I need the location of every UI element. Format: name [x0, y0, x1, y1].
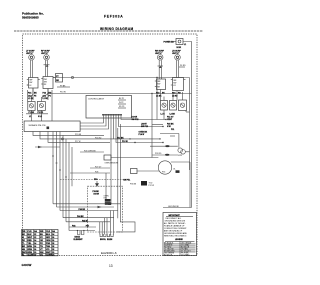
- svg-text:SW P13: SW P13: [141, 126, 148, 128]
- surface unit LF (receptacle circle): [29, 55, 35, 61]
- right feed vertical x117.8: [117, 128, 119, 218]
- svg-text:P50: P50: [94, 179, 97, 181]
- right feed vertical x120.3 with corner: [117, 124, 136, 232]
- svg-text:P16 RD: P16 RD: [95, 138, 102, 140]
- wire color code table: [22, 230, 59, 257]
- arrow on oven box edge: [95, 181, 99, 187]
- bake element (loops below wire): [69, 230, 95, 235]
- wire RR unit down: [159, 60, 161, 79]
- svg-text:P6: P6: [49, 95, 51, 97]
- label under arrow: [93, 191, 100, 195]
- header rule: [14, 30, 203, 32]
- svg-text:N BK: N BK: [177, 47, 182, 49]
- svg-text:GRY: GRY: [46, 237, 51, 239]
- svg-text:L2 BK: L2 BK: [170, 114, 176, 116]
- connector tab near light: [176, 170, 180, 173]
- broil element connector wires: [100, 211, 114, 235]
- svg-text:13: 13: [109, 264, 113, 268]
- infinite switch RR: [155, 79, 166, 90]
- svg-text:BK P1: BK P1: [119, 98, 124, 100]
- svg-text:LEGEND: LEGEND: [175, 239, 184, 241]
- wire row y221.8: [66, 219, 110, 222]
- svg-text:ALUM: ALUM: [28, 254, 34, 257]
- svg-text:P46: P46: [72, 225, 75, 228]
- svg-text:L1: L1: [184, 44, 186, 46]
- label broil element: [100, 239, 113, 241]
- svg-text:FEF303A: FEF303A: [104, 15, 123, 19]
- vertical bus drop 5: [65, 139, 67, 222]
- wire RR switch down: [160, 90, 162, 101]
- wire row y146 with connector bullet: [150, 145, 178, 147]
- footer drawing number on frame line: [100, 251, 119, 256]
- svg-text:P47: P47: [86, 225, 89, 228]
- svg-text:POWER BD: POWER BD: [164, 42, 175, 44]
- bus line 2: [40, 132, 160, 140]
- label under LR switch: [172, 92, 181, 98]
- wire row y227: [69, 225, 96, 228]
- igniter (dark block): [104, 199, 111, 205]
- wire right plugs down: [164, 110, 190, 120]
- label under plugs row1: [29, 112, 44, 114]
- bus labels dark: [117, 137, 128, 143]
- label on feed line: [57, 85, 70, 87]
- bus line 1: [33, 132, 104, 137]
- wire bus to motor feed: [170, 129, 175, 136]
- vertical bus drop 1: [52, 132, 54, 204]
- svg-text:P7: P7: [56, 76, 58, 78]
- label under RR switch: [156, 93, 165, 98]
- wire TB left stub: [166, 42, 176, 53]
- wire motor to right bus: [185, 151, 189, 153]
- label cluster 3: [139, 131, 148, 135]
- pin stub P3: [118, 106, 126, 108]
- wire left column down: [27, 85, 28, 102]
- wire LF unit down to LF switch: [30, 60, 32, 77]
- svg-text:P14 W: P14 W: [139, 133, 145, 136]
- temp probe component: [104, 155, 118, 165]
- wire TB to right bus: [183, 42, 192, 208]
- oven door dashed box: [88, 186, 123, 232]
- svg-text:P35: P35: [162, 172, 165, 174]
- plug connector LF (circle in box): [28, 102, 35, 111]
- wire to legend box area: [163, 206, 192, 208]
- limiter on RF unit lead: [44, 65, 50, 67]
- svg-text:GOOW: GOOW: [22, 263, 32, 267]
- wire vertical x157: [156, 78, 158, 120]
- svg-text:BLU: BLU: [46, 234, 51, 236]
- fuse black component row y183: [130, 181, 154, 187]
- junction dots on bus: [129, 138, 163, 143]
- svg-text:BLK: BLK: [28, 234, 33, 236]
- wire RR switch to plug: [164, 92, 183, 101]
- svg-text:TAN: TAN: [46, 245, 51, 248]
- wire row y155 with connector bullet: [152, 153, 178, 156]
- svg-text:CLR: CLR: [46, 231, 51, 233]
- svg-text:CLR: CLR: [28, 231, 33, 233]
- wire plugs into panel box: [31, 110, 41, 121]
- svg-text:BK P51: BK P51: [124, 179, 131, 181]
- svg-text:GRN: GRN: [28, 249, 33, 251]
- plug connector RR (circle in box): [161, 101, 168, 111]
- label bake element: [74, 236, 84, 241]
- svg-text:VIO: VIO: [46, 249, 50, 251]
- surface unit RR (receptacle circle): [157, 55, 163, 61]
- wire mid row: [70, 171, 110, 173]
- vertical bus drop 7: [71, 147, 73, 186]
- svg-text:SW P12: SW P12: [132, 119, 139, 121]
- svg-text:W: W: [22, 237, 24, 239]
- labels mid right rows: [90, 166, 110, 168]
- svg-text:P15 BK: P15 BK: [75, 134, 82, 136]
- surface unit LR (receptacle circle): [175, 55, 181, 61]
- infinite switch LR: [171, 78, 186, 91]
- pin stub P1: [118, 98, 126, 100]
- svg-text:P17 W: P17 W: [75, 141, 81, 143]
- svg-text:P5: P5: [34, 95, 36, 97]
- svg-text:P28: P28: [95, 171, 98, 173]
- svg-text:SURFACE PNL P30: SURFACE PNL P30: [29, 124, 46, 127]
- motor feed vertical: [160, 134, 179, 148]
- svg-text:OVEN SENSOR: OVEN SENSOR: [105, 163, 119, 165]
- label under right plugs: [161, 114, 176, 116]
- svg-text:P36 BK: P36 BK: [130, 184, 137, 186]
- infinite switch RF: [41, 77, 55, 89]
- wire RF switch down: [47, 89, 49, 101]
- svg-text:WHT: WHT: [28, 237, 33, 239]
- vent label cluster right: [167, 117, 174, 128]
- right bus line inner: [189, 78, 191, 171]
- label LR surface unit: [172, 51, 181, 56]
- svg-text:P40 BK: P40 BK: [79, 208, 86, 211]
- dashed border frame: [23, 34, 198, 256]
- wire LF switch down: [32, 88, 34, 100]
- electronic oven control box: [86, 96, 132, 119]
- label RR surface unit: [155, 51, 165, 56]
- label on LR lead: [179, 65, 186, 67]
- limiter on RR unit lead: [158, 66, 164, 68]
- motor circuit corner: [152, 124, 163, 126]
- wire row y217.7: [63, 215, 114, 218]
- svg-text:BRN: BRN: [28, 246, 33, 248]
- svg-text:L2 RD: L2 RD: [43, 98, 49, 100]
- wire row y207 with arrow: [57, 206, 115, 208]
- svg-text:BU BLUE: BU BLUE: [164, 254, 173, 256]
- label under plugs row2: [29, 116, 42, 118]
- svg-text:ELEM: ELEM: [107, 239, 113, 241]
- svg-text:WR: WR: [40, 231, 44, 233]
- wire row y210.5: [60, 208, 118, 211]
- svg-text:ORN: ORN: [46, 240, 51, 242]
- svg-text:WHT: WHT: [46, 252, 51, 254]
- plug connector RF (circle in box): [37, 102, 45, 111]
- igniter feed wire: [105, 173, 107, 199]
- svg-text:BROIL: BROIL: [100, 239, 107, 241]
- label on N feed: [60, 92, 66, 94]
- vertical bus drop 6: [68, 142, 70, 230]
- surface unit RF (receptacle circle): [44, 55, 50, 61]
- wire LR switch down: [176, 91, 178, 101]
- vertical bus drop 4: [62, 135, 64, 217]
- svg-text:OL: OL: [173, 169, 176, 171]
- svg-text:1A2: 1A2: [28, 94, 31, 97]
- door switch label cluster 1: [132, 116, 139, 120]
- wire row y203.8: [53, 202, 121, 205]
- supply terminal block TB: [176, 39, 183, 45]
- node circle on bus: [62, 138, 64, 140]
- svg-text:GROUND BK: GROUND BK: [168, 206, 180, 208]
- svg-text:VENT: VENT: [167, 119, 173, 121]
- svg-text:5995309885: 5995309885: [22, 16, 39, 20]
- wire N feed line: [47, 93, 192, 94]
- plug connector LR (circle in box): [179, 100, 187, 111]
- pin stub P2: [118, 102, 126, 104]
- wire vertical x152: [151, 94, 153, 158]
- junction dots right rows: [159, 119, 166, 140]
- legend notes box: [163, 213, 197, 257]
- svg-text:WH: WH: [40, 252, 44, 254]
- svg-text:RED: RED: [28, 240, 33, 242]
- component small box y170: [131, 169, 160, 174]
- dashed broiler boundary line: [60, 179, 130, 181]
- svg-text:P21: P21: [28, 93, 31, 95]
- wire arrow component at left: [35, 146, 60, 148]
- junction dot L1 at RR switch: [156, 77, 189, 78]
- inline fuse label box on L1 feed: [56, 74, 63, 83]
- wire LF switch to plug: [31, 88, 33, 102]
- wires fanning from terminal strip: [80, 118, 166, 204]
- label RF surface unit: [41, 51, 50, 56]
- label under RF switch: [43, 93, 52, 101]
- svg-text:WR: WR: [22, 231, 26, 233]
- svg-text:P44 BK: P44 BK: [77, 215, 84, 218]
- svg-text:P10 W: P10 W: [60, 92, 66, 94]
- svg-text:L1: L1: [29, 116, 31, 118]
- svg-text:REMOVED, RECONNECT.: REMOVED, RECONNECT.: [164, 236, 187, 238]
- node circle on L1 feed: [71, 76, 73, 78]
- publication number text: [22, 12, 44, 20]
- wire top feed line L1: [53, 77, 157, 79]
- infinite switch LF: [27, 78, 40, 89]
- plug connector mid (circle in box): [170, 101, 177, 111]
- svg-text:EA230D1-6: EA230D1-6: [101, 251, 117, 255]
- svg-text:W P2: W P2: [119, 102, 123, 104]
- surface panel box: [24, 121, 80, 132]
- svg-text:RD P3: RD P3: [119, 106, 124, 108]
- svg-text:ELEMENT: ELEMENT: [74, 239, 84, 241]
- bus line 3: [48, 132, 110, 143]
- svg-text:DOOR: DOOR: [94, 193, 100, 195]
- vertical bus drop 3: [59, 132, 61, 211]
- svg-text:P33 RD: P33 RD: [155, 153, 162, 155]
- wire under plugs: [26, 113, 48, 115]
- svg-text:P19 W: P19 W: [122, 141, 128, 143]
- wire LR unit down: [176, 60, 178, 77]
- wire RF unit down to RF switch: [45, 60, 47, 76]
- stub line y152: [80, 150, 104, 152]
- broil element loops: [100, 234, 113, 237]
- latch motor (two circles): [178, 148, 185, 157]
- wire probe to light: [111, 157, 158, 159]
- junction ticks on bus: [52, 156, 67, 177]
- svg-text:GY GRAY: GY GRAY: [181, 253, 190, 256]
- oven light (large circle): [158, 161, 171, 174]
- label under LF switch: [28, 93, 37, 101]
- vertical bus drop 2: [56, 132, 58, 208]
- svg-text:P22: P22: [43, 93, 46, 95]
- svg-text:CONTROL ASSY: CONTROL ASSY: [88, 98, 105, 101]
- svg-text:P31: P31: [171, 129, 174, 131]
- svg-text:PNK: PNK: [46, 243, 51, 245]
- igniter labels: [104, 195, 110, 199]
- terminal strip on control: [102, 114, 122, 118]
- wire light top to bus: [171, 162, 190, 208]
- svg-text:GRN: GRN: [28, 252, 33, 254]
- svg-text:P45 W: P45 W: [82, 219, 88, 222]
- svg-text:P37 W: P37 W: [149, 185, 155, 187]
- wire RF switch to plug: [41, 89, 48, 102]
- label LF surface unit: [26, 51, 35, 56]
- wire right column down: [51, 90, 53, 121]
- door switch label cluster 2: [141, 123, 148, 127]
- svg-text:N W: N W: [167, 126, 171, 128]
- svg-text:WIRING DIAGRAM: WIRING DIAGRAM: [100, 27, 134, 31]
- svg-text:P26 OVEN BK: P26 OVEN BK: [84, 150, 96, 152]
- svg-text:L1 N: L1 N: [161, 114, 166, 116]
- MAIN SCHEMATIC PLACEHOLDER GROUPS (filled in below): [26, 51, 55, 121]
